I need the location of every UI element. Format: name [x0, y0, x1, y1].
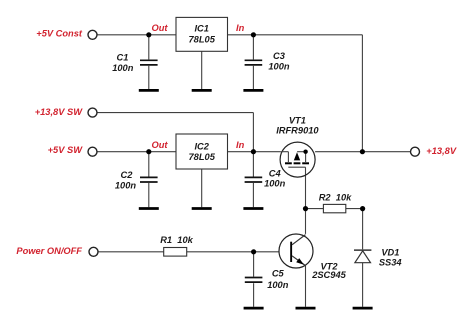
svg-text:IC1: IC1 — [194, 24, 208, 34]
svg-text:C2: C2 — [121, 170, 134, 180]
svg-text:2SC945: 2SC945 — [311, 270, 346, 280]
svg-text:R2 10k: R2 10k — [319, 193, 352, 203]
svg-text:In: In — [236, 23, 245, 33]
svg-text:100n: 100n — [264, 179, 286, 189]
svg-text:C1: C1 — [117, 52, 129, 62]
svg-text:100n: 100n — [112, 63, 134, 73]
svg-text:+5V Const: +5V Const — [36, 28, 83, 38]
svg-text:100n: 100n — [115, 181, 137, 191]
svg-text:SS34: SS34 — [379, 258, 403, 268]
svg-text:C3: C3 — [273, 51, 286, 61]
svg-text:78L05: 78L05 — [189, 152, 216, 162]
svg-text:Out: Out — [151, 23, 168, 33]
svg-text:+5V SW: +5V SW — [48, 145, 84, 155]
svg-text:Out: Out — [151, 140, 168, 150]
svg-text:IC2: IC2 — [194, 142, 209, 152]
svg-text:+13,8V: +13,8V — [426, 146, 457, 156]
svg-text:In: In — [236, 140, 245, 150]
svg-text:+13,8V SW: +13,8V SW — [35, 107, 84, 117]
svg-text:R1 10k: R1 10k — [160, 235, 193, 245]
svg-text:IRFR9010: IRFR9010 — [276, 125, 319, 135]
svg-text:VD1: VD1 — [381, 248, 399, 258]
svg-text:100n: 100n — [268, 61, 290, 71]
svg-text:Power ON/OFF: Power ON/OFF — [16, 246, 82, 256]
svg-text:C5: C5 — [272, 269, 285, 279]
svg-text:78L05: 78L05 — [189, 35, 216, 45]
svg-text:100n: 100n — [267, 280, 289, 290]
svg-text:C4: C4 — [269, 168, 282, 178]
svg-text:VT1: VT1 — [289, 115, 306, 125]
